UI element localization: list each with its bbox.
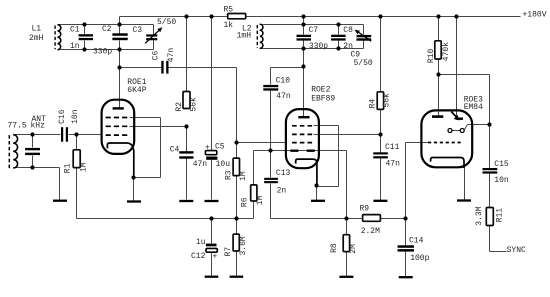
svg-text:R2: R2 — [175, 102, 184, 112]
svg-text:10u: 10u — [216, 160, 231, 169]
svg-text:56k: 56k — [189, 97, 198, 112]
svg-text:1k: 1k — [224, 21, 234, 30]
svg-text:C8: C8 — [343, 26, 353, 35]
svg-text:R7: R7 — [224, 247, 233, 257]
svg-text:47n: 47n — [193, 160, 208, 169]
svg-text:10n: 10n — [71, 109, 80, 124]
svg-text:ROE2: ROE2 — [311, 85, 330, 94]
svg-text:2M: 2M — [349, 244, 358, 254]
svg-text:330p: 330p — [309, 42, 328, 51]
svg-text:L1: L1 — [32, 25, 42, 34]
svg-text:C2: C2 — [102, 25, 112, 34]
svg-text:1n: 1n — [70, 42, 80, 51]
svg-text:1M: 1M — [256, 195, 265, 205]
svg-text:SYNC: SYNC — [507, 246, 526, 255]
svg-text:1u: 1u — [196, 238, 206, 247]
svg-text:R4: R4 — [369, 99, 378, 109]
svg-text:3.6M: 3.6M — [239, 236, 248, 255]
svg-text:2mH: 2mH — [29, 34, 44, 43]
svg-text:10n: 10n — [494, 176, 509, 185]
svg-text:+180V: +180V — [523, 10, 547, 19]
svg-text:5/50: 5/50 — [354, 59, 373, 68]
svg-text:470k: 470k — [442, 42, 451, 61]
svg-text:EBF89: EBF89 — [311, 95, 335, 104]
svg-text:47n: 47n — [167, 48, 176, 63]
svg-text:EM84: EM84 — [464, 103, 483, 112]
svg-text:1M: 1M — [239, 171, 248, 181]
svg-text:47n: 47n — [276, 92, 291, 101]
svg-text:C13: C13 — [276, 169, 291, 178]
svg-text:C1: C1 — [70, 26, 80, 35]
svg-text:56k: 56k — [383, 93, 392, 108]
svg-text:C12: C12 — [191, 252, 206, 261]
svg-text:C10: C10 — [276, 76, 291, 85]
svg-text:330p: 330p — [93, 48, 112, 57]
svg-text:1mH: 1mH — [237, 32, 252, 41]
svg-text:R9: R9 — [360, 205, 370, 214]
svg-text:77.5: 77.5 — [8, 122, 27, 131]
svg-text:R10: R10 — [427, 49, 436, 64]
svg-text:2n: 2n — [277, 186, 287, 195]
svg-text:C16: C16 — [58, 109, 67, 124]
svg-text:5/50: 5/50 — [157, 18, 176, 27]
svg-text:R11: R11 — [496, 208, 505, 223]
svg-text:+: + — [205, 144, 210, 153]
svg-text:C14: C14 — [409, 237, 424, 246]
svg-text:C11: C11 — [385, 143, 400, 152]
svg-text:C3: C3 — [133, 26, 143, 35]
svg-text:C5: C5 — [215, 143, 225, 152]
svg-text:R8: R8 — [330, 243, 339, 253]
svg-text:R5: R5 — [224, 6, 234, 15]
svg-text:6K4P: 6K4P — [127, 86, 146, 95]
svg-text:C6: C6 — [152, 51, 161, 61]
svg-text:R6: R6 — [241, 197, 250, 207]
svg-text:3.3M: 3.3M — [475, 206, 484, 225]
svg-text:R1: R1 — [64, 163, 73, 173]
svg-text:+: + — [213, 253, 218, 262]
svg-text:C15: C15 — [494, 160, 509, 169]
svg-text:C4: C4 — [170, 146, 180, 155]
svg-text:100p: 100p — [410, 254, 429, 263]
svg-text:C9: C9 — [351, 50, 361, 59]
svg-text:R3: R3 — [224, 170, 233, 180]
svg-text:C7: C7 — [309, 26, 319, 35]
svg-text:2.2M: 2.2M — [361, 227, 380, 236]
svg-text:kHz: kHz — [31, 122, 46, 131]
svg-text:47n: 47n — [386, 160, 401, 169]
svg-text:1M: 1M — [80, 162, 89, 172]
